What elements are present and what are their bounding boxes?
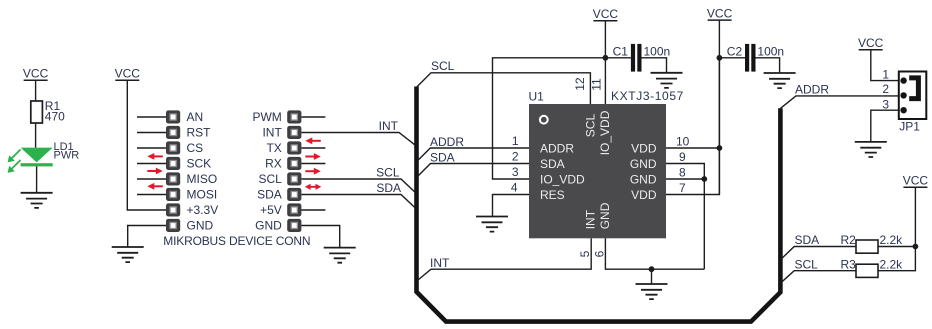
svg-text:GND: GND (255, 219, 282, 233)
junction dot C1 tap (603, 55, 609, 61)
wire SCL from header to bus (301, 179, 415, 193)
direction arrow SDA (red, both) (305, 184, 322, 190)
ground (LED) (21, 193, 53, 208)
net label SCL (right) (795, 257, 819, 271)
wire VCC down past C1 tap (604, 21, 606, 58)
pin number 5 (rotated) (578, 250, 592, 257)
svg-text:1: 1 (882, 67, 889, 81)
IC pin name RES (left) (540, 188, 565, 202)
net label ADDR (430, 135, 464, 149)
svg-text:2.2k: 2.2k (880, 233, 904, 247)
svg-text:4: 4 (511, 181, 518, 195)
direction arrow CS (red, left) (147, 153, 163, 160)
svg-text:8: 8 (679, 166, 686, 180)
wire junction to ground (651, 269, 653, 284)
svg-text:VCC: VCC (903, 173, 929, 187)
svg-text:SCK: SCK (187, 157, 212, 171)
svg-text:CS: CS (187, 141, 204, 155)
wire C2 to ground (756, 58, 780, 73)
part value KXTJ3-1057 (611, 89, 684, 103)
pin number 4 (511, 181, 518, 195)
direction arrow SCK (red, right) (147, 168, 163, 175)
svg-text:SDA: SDA (430, 150, 455, 164)
net label SCL (top) (431, 59, 455, 73)
net label INT (header side) (379, 119, 399, 133)
connector pin TX (mikroBUS right) (287, 141, 301, 154)
IC pin name INT (bottom, rotated) (584, 209, 598, 229)
svg-text:SDA: SDA (540, 157, 565, 171)
connector pin PWM (mikroBUS right) (287, 110, 301, 123)
svg-text:RX: RX (265, 157, 282, 171)
wire SCL bus to R3 (780, 271, 856, 284)
pin label PWM (252, 110, 281, 124)
ground (C2) (764, 73, 796, 88)
capacitor C2 (727, 44, 784, 72)
IC pin name VDD (right) (631, 141, 657, 155)
pin label RX (265, 157, 282, 171)
reference designator JP1 (899, 119, 920, 133)
pin label RST (187, 126, 212, 140)
resistor R2 (841, 233, 904, 253)
net label SCL (header side) (376, 166, 400, 180)
power flag VCC (LED branch) (23, 67, 49, 81)
svg-text:PWR: PWR (54, 149, 80, 161)
svg-text:SCL: SCL (431, 59, 455, 73)
connector pin GND (mikroBUS right) (287, 219, 301, 232)
wire pin 10 VDD to VCC rail (666, 147, 719, 149)
svg-text:IO_VDD: IO_VDD (540, 172, 585, 186)
net label SDA (430, 150, 455, 164)
svg-text:100n: 100n (757, 45, 784, 59)
connector pin INT (mikroBUS right) (287, 126, 301, 139)
svg-text:U1: U1 (529, 90, 545, 104)
pin label SCK (187, 157, 212, 171)
junction dot pin10/VCC (717, 145, 723, 151)
power flag VCC (pull-ups) (903, 173, 929, 187)
svg-text:2: 2 (512, 150, 519, 164)
power flag VCC (C2) (707, 6, 733, 20)
svg-text:JP1: JP1 (899, 119, 920, 133)
svg-text:SCL: SCL (795, 257, 819, 271)
wire GND pin 6 (605, 238, 704, 269)
IC pin name IO_VDD (left) (540, 172, 585, 186)
svg-text:VCC: VCC (23, 67, 49, 81)
svg-text:AN: AN (187, 110, 204, 124)
svg-text:PWM: PWM (252, 110, 281, 124)
svg-text:MOSI: MOSI (187, 188, 218, 202)
connector pin SDA (mikroBUS right) (287, 188, 301, 201)
pin label +3.3V (187, 203, 219, 217)
capacitor C1 (613, 44, 671, 72)
net label INT (bottom) (430, 256, 450, 270)
wire VCC rail down to pin 7 (718, 20, 720, 194)
svg-text:MIKROBUS DEVICE CONN: MIKROBUS DEVICE CONN (163, 234, 310, 248)
pin label MISO (187, 172, 218, 186)
wire VCC to pin 11 (604, 58, 606, 104)
pin label MOSI (187, 188, 218, 202)
power flag VCC (JP1) (858, 36, 884, 50)
wire VCC to JP1 pin 1 (871, 50, 899, 81)
junction dot C2 tap (717, 55, 723, 61)
svg-text:MISO: MISO (187, 172, 218, 186)
pin number 6 (rotated) (592, 250, 606, 257)
wire to C1 (605, 57, 631, 59)
connector pin MISO (mikroBUS left) (166, 172, 180, 185)
pin label TX (266, 141, 281, 155)
wire pin 7 VDD to VCC rail (666, 58, 719, 195)
IC pin name SDA (left) (540, 157, 565, 171)
svg-text:2: 2 (882, 82, 889, 96)
wire stub RST pin (137, 132, 166, 134)
wire LED to ground (36, 166, 38, 192)
net label ADDR (right) (795, 82, 829, 96)
wire VCC to IO_VDD pin 3 (493, 58, 606, 179)
svg-text:RST: RST (187, 126, 212, 140)
svg-text:SDA: SDA (257, 188, 282, 202)
pin label CS (187, 141, 204, 155)
wire RES pin 4 to ground (493, 195, 530, 217)
wire stub MISO pin (137, 178, 166, 180)
wire R3 up to VCC (878, 187, 915, 271)
IC pin name ADDR (left) (540, 141, 574, 155)
pin label GND (255, 219, 282, 233)
net label SDA (header side) (376, 181, 401, 195)
net label SDA (right) (795, 233, 820, 247)
op IC body U1 KXTJ3-1057 (529, 104, 666, 238)
label MIKROBUS DEVICE CONN (163, 234, 310, 248)
svg-text:VDD: VDD (631, 141, 657, 155)
svg-text:ADDR: ADDR (540, 141, 574, 155)
svg-text:3: 3 (882, 97, 889, 111)
wire GND pin to ground (301, 226, 339, 248)
ground (C1) (651, 73, 683, 88)
resistor R1 (31, 99, 65, 123)
svg-text:2.2k: 2.2k (880, 257, 904, 271)
svg-text:ADDR: ADDR (430, 135, 464, 149)
svg-text:SCL: SCL (584, 114, 598, 138)
svg-text:C1: C1 (613, 45, 629, 59)
direction arrow TX (red, right) (305, 153, 321, 160)
pin label GND (187, 219, 214, 233)
wire pin 8 GND (666, 179, 704, 269)
IC pin name IO_VDD (top, rotated) (598, 110, 612, 155)
wire VCC to R1 (35, 80, 37, 101)
IC pin name GND (right) (630, 157, 657, 171)
IC pin name VDD (right) (631, 188, 657, 202)
svg-text:12: 12 (573, 77, 587, 91)
wire R2 to VCC (878, 246, 915, 248)
wire stub +5V pin (301, 209, 325, 211)
svg-text:INT: INT (584, 209, 598, 229)
svg-text:INT: INT (262, 126, 282, 140)
pin label SCL (258, 172, 282, 186)
connector pin RX (mikroBUS right) (287, 157, 301, 170)
wire R1 to LED (35, 123, 37, 148)
wire stub CS pin (137, 147, 166, 149)
svg-text:GND: GND (630, 172, 657, 186)
svg-text:+5V: +5V (260, 203, 282, 217)
jumper JP1 body (899, 72, 927, 120)
wire GND pin to ground (128, 226, 166, 248)
pin label SDA (257, 188, 282, 202)
connector pin MOSI (mikroBUS left) (166, 188, 180, 201)
svg-text:+3.3V: +3.3V (187, 203, 219, 217)
pin number 2 (JP1) (882, 82, 889, 96)
direction arrow MISO (red, left) (147, 183, 163, 190)
wire INT from header to bus (301, 133, 415, 146)
pin number 9 (679, 150, 686, 164)
bus wire (thick signal bundle) (417, 87, 781, 322)
svg-text:TX: TX (266, 141, 281, 155)
pin label +5V (260, 203, 282, 217)
svg-text:6: 6 (592, 250, 606, 257)
IC pin name SCL (top, rotated) (584, 114, 598, 138)
svg-text:SCL: SCL (376, 166, 400, 180)
pin number 8 (679, 166, 686, 180)
IC pin name GND (right) (630, 172, 657, 186)
ground (RES pin) (476, 217, 508, 232)
pin 1 marker circle (540, 116, 548, 124)
svg-text:GND: GND (187, 219, 214, 233)
wire VCC to +3.3V pin (127, 80, 166, 210)
wire stub RX pin (301, 163, 325, 165)
connector pin GND (mikroBUS left) (166, 219, 180, 232)
connector pin +5V (mikroBUS right) (287, 203, 301, 216)
svg-text:INT: INT (379, 119, 399, 133)
svg-text:VCC: VCC (858, 36, 884, 50)
svg-text:VCC: VCC (115, 67, 141, 81)
ground (header right GND) (324, 248, 356, 263)
wire stub MOSI pin (137, 194, 166, 196)
svg-text:SDA: SDA (795, 233, 820, 247)
resistor R3 (841, 257, 904, 277)
wire stub TX pin (301, 147, 325, 149)
svg-text:1: 1 (512, 134, 519, 148)
pin label AN (187, 110, 204, 124)
wire ADDR bus to JP1 pin 2 (780, 96, 898, 109)
svg-text:VDD: VDD (631, 188, 657, 202)
svg-text:GND: GND (598, 202, 612, 229)
ground (IC GND net) (636, 284, 668, 299)
wire SCL bus to pin 12 (417, 73, 591, 104)
pin number 12 (rotated) (573, 77, 587, 91)
ground (JP1) (855, 142, 887, 157)
pin number 1 (JP1) (882, 67, 889, 81)
ground (mikroBUS GND) (112, 247, 144, 262)
connector pin SCL (mikroBUS right) (287, 172, 301, 185)
svg-text:7: 7 (679, 181, 686, 195)
connector pin +3.3V (mikroBUS left) (166, 203, 180, 216)
pin number 10 (676, 135, 690, 149)
svg-text:R2: R2 (841, 233, 857, 247)
pin number 7 (679, 181, 686, 195)
svg-text:10: 10 (676, 135, 690, 149)
wire stub AN pin (137, 116, 166, 118)
svg-text:INT: INT (430, 256, 450, 270)
wire C1 to ground (642, 58, 667, 73)
svg-text:3: 3 (512, 165, 519, 179)
wire stub PWM pin (301, 116, 325, 118)
wire SDA bus to pin 2 (418, 164, 529, 177)
LED LD1 PWR (green) (8, 141, 80, 173)
wire SDA from header to bus (301, 195, 415, 209)
svg-text:C2: C2 (727, 45, 743, 59)
wire ADDR bus to pin 1 (418, 148, 529, 160)
direction arrow INT (red, left) (305, 137, 321, 144)
svg-text:SCL: SCL (258, 172, 282, 186)
pin number 2 (512, 150, 519, 164)
wire stub SCK pin (137, 163, 166, 165)
svg-text:5: 5 (578, 250, 592, 257)
wire SDA bus to R2 (780, 247, 856, 260)
pin number 3 (512, 165, 519, 179)
junction dot GND net (649, 266, 655, 272)
svg-text:11: 11 (590, 78, 604, 91)
connector pin AN (mikroBUS left) (166, 110, 180, 123)
pin number 1 (512, 134, 519, 148)
svg-text:IO_VDD: IO_VDD (598, 110, 612, 155)
connector pin CS (mikroBUS left) (166, 141, 180, 154)
connector pin SCK (mikroBUS left) (166, 157, 180, 170)
power flag VCC (C1) (593, 7, 619, 21)
pin number 3 (JP1) (882, 97, 889, 111)
reference designator U1 (529, 90, 545, 104)
svg-text:VCC: VCC (593, 7, 619, 21)
power flag VCC (mikroBUS 3.3V) (115, 67, 141, 81)
svg-text:KXTJ3-1057: KXTJ3-1057 (611, 89, 684, 103)
junction dot R2/VCC (913, 244, 919, 250)
IC pin name GND (bottom, rotated) (598, 202, 612, 229)
pin number 11 (rotated) (590, 78, 604, 91)
wire to C2 (719, 57, 745, 59)
pin label INT (262, 126, 282, 140)
direction arrow RX (red, right) (305, 168, 321, 175)
junction dot pin8 GND (701, 176, 707, 182)
svg-text:100n: 100n (644, 45, 671, 59)
svg-text:R3: R3 (841, 257, 857, 271)
wire INT pin 5 to bus (417, 238, 591, 281)
svg-text:VCC: VCC (707, 6, 733, 20)
svg-text:RES: RES (540, 188, 565, 202)
svg-text:470: 470 (45, 110, 65, 124)
svg-text:GND: GND (630, 157, 657, 171)
svg-text:ADDR: ADDR (795, 82, 829, 96)
wire pin 9 GND (666, 164, 704, 180)
svg-text:9: 9 (679, 150, 686, 164)
connector pin RST (mikroBUS left) (166, 126, 180, 139)
svg-text:SDA: SDA (376, 181, 401, 195)
wire JP1 pin 3 to ground (871, 110, 899, 142)
